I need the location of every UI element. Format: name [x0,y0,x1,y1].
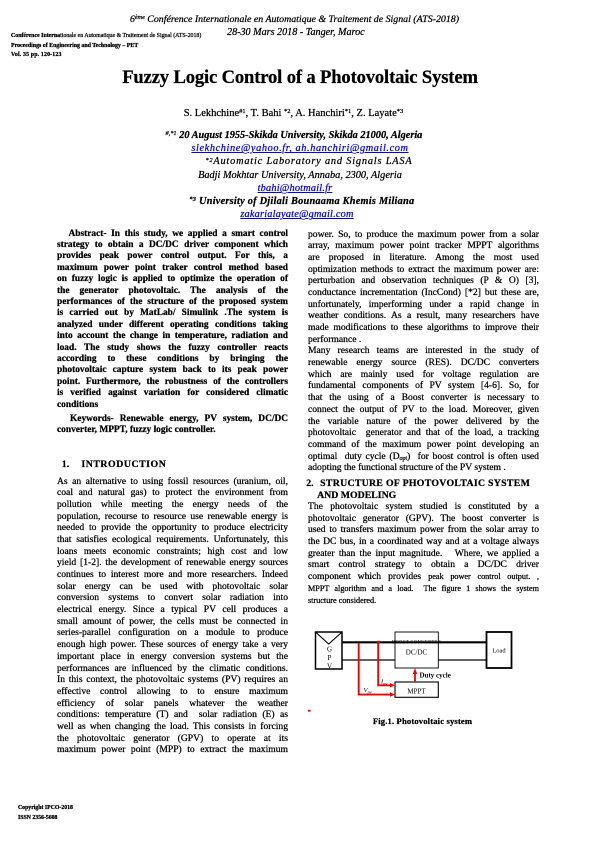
svg-text:DC/DC: DC/DC [406,649,428,657]
load box [487,632,512,668]
MPPT box [395,682,438,697]
red duty-cycle arrow [414,673,416,683]
left column : abstract [57,229,288,412]
figure caption [373,716,473,726]
figure 1 [305,625,525,715]
red junction [377,641,380,644]
bottom wire left [342,659,395,661]
footer [18,804,73,823]
red Ipv wire [378,643,391,685]
heading 2 [306,478,530,503]
svg-text:V: V [327,663,332,671]
svg-text:Load: Load [492,648,506,655]
svg-text:MPPT: MPPT [407,688,426,696]
authors [0,108,591,119]
svg-text:P: P [328,654,332,662]
right column : paragraph 1 and 2 [308,229,539,474]
bottom wire right [438,659,486,661]
stamp block top-left [11,32,201,61]
header line 1 [0,14,592,25]
svg-text:Vpv: Vpv [364,687,372,695]
svg-text:Duty cycle: Duty cycle [420,672,451,680]
GPV triangle [316,632,343,644]
header line 2 [0,27,593,38]
heading 1 [62,459,167,471]
GPV box [316,632,343,669]
left column : intro [57,476,288,757]
right column : paragraph 3 [308,501,539,606]
title [3,68,595,88]
svg-text:Ipv: Ipv [380,679,387,687]
top wire [342,641,487,643]
stray red dash [308,710,311,712]
svg-text:G: G [327,646,332,654]
red Vpv wire [359,643,392,695]
affiliations [0,129,595,222]
keywords [57,414,288,437]
DC/DC box [395,632,438,668]
